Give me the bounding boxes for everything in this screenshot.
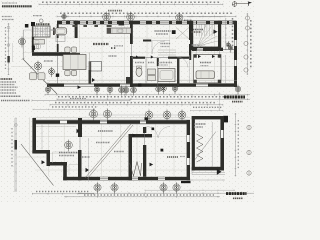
upper cabinet dashes	[72, 25, 77, 27]
2F bottom circle 2	[111, 182, 118, 193]
stair text	[189, 31, 201, 33]
PH top wall	[192, 116, 225, 119]
stair block dim ruler	[225, 18, 227, 50]
2F right wall	[187, 120, 190, 180]
PH balcony lines	[192, 172, 225, 174]
entry step marker	[78, 85, 82, 89]
left ruler 1F	[8, 23, 10, 75]
grid circle X5	[176, 12, 183, 23]
washroom divider	[157, 58, 159, 86]
backdoor arc	[177, 57, 188, 68]
vestibule cross	[176, 28, 189, 40]
2F room text1	[98, 130, 113, 132]
2F grid circle T4	[163, 110, 171, 122]
bottom grid circle B9	[172, 84, 178, 94]
2F small text r	[82, 156, 90, 158]
porch circle	[34, 61, 42, 73]
label 1F scale	[232, 101, 243, 103]
PH blob	[217, 169, 222, 175]
door sill black	[119, 22, 125, 25]
2F bedroom blobs	[152, 128, 155, 131]
black column blob B	[32, 46, 35, 51]
2F blob a	[42, 160, 46, 164]
PH stair diagonal	[195, 132, 216, 160]
SE dim rulers	[188, 55, 190, 83]
bath tub 1F	[158, 69, 175, 82]
2F upper-left dim	[33, 108, 95, 110]
window tag X5	[184, 19, 192, 21]
2F wall stairside	[129, 134, 153, 137]
2F void text	[59, 152, 78, 154]
bottom grid circle B10	[235, 85, 241, 95]
2F bedroom text	[167, 156, 178, 158]
2F numbers mid	[52, 106, 98, 108]
diagonal site boundary 1F	[23, 59, 57, 94]
PH left wall	[192, 116, 195, 171]
2F bottom circle 4	[173, 182, 180, 193]
2F eaves line	[33, 116, 190, 118]
porch circle 2	[49, 67, 55, 77]
bottom grid circle B5	[123, 86, 129, 96]
midroom divider	[145, 58, 147, 83]
entry door arc	[152, 41, 165, 54]
wc vent marks	[136, 55, 139, 58]
2F blob b	[77, 129, 81, 133]
2F step wall v1	[47, 150, 51, 166]
area table bold text	[2, 5, 32, 7]
dimension numbers row1	[42, 1, 220, 3]
powder text	[158, 62, 172, 64]
2F bottom dim r	[145, 189, 235, 191]
module grid bottom plan	[48, 124, 50, 176]
2F bottom circle 3	[160, 182, 167, 193]
bench mark flag	[237, 3, 249, 5]
PH bottom dim	[190, 179, 225, 181]
2F bottom-left dim	[32, 193, 94, 195]
bottom grid circle B4	[119, 86, 125, 96]
module grid top plan	[79, 24, 81, 84]
bottom wall 1F	[47, 79, 237, 81]
PH right ruler	[234, 113, 236, 176]
2F diagonal boundary	[21, 144, 54, 186]
window tag cluster X1	[33, 15, 42, 17]
bottom grid circle B3	[107, 85, 113, 95]
closet label	[52, 29, 59, 31]
2F step inner lines	[36, 126, 76, 128]
2F top dim numbers	[55, 102, 215, 104]
LDK label2	[114, 45, 123, 47]
left ruler aux line	[12, 43, 14, 62]
kitchen island	[89, 62, 102, 72]
washer box	[56, 36, 65, 42]
legend notes	[1, 78, 13, 80]
room divider y58	[131, 57, 190, 59]
kitchen corner piece	[126, 77, 130, 84]
SE room walls	[194, 55, 221, 83]
2F step wall h2	[47, 162, 68, 166]
2F step wall v2	[63, 162, 67, 180]
2F grid circle T1	[90, 109, 98, 121]
2F bottom circle 1	[94, 182, 101, 193]
2F center wall	[78, 118, 82, 137]
toilet room fixtures	[136, 68, 142, 77]
void label	[109, 55, 117, 57]
SE room text	[200, 62, 211, 64]
midroom text	[148, 62, 154, 64]
black column blob A	[25, 24, 29, 28]
wc fixture	[34, 45, 39, 49]
PH bottom wall	[192, 167, 224, 171]
PH right circles	[247, 125, 251, 175]
stair ruler circles	[226, 41, 230, 49]
2F bottom numbers	[84, 194, 214, 196]
void diagonal brace	[85, 124, 131, 178]
dining table	[63, 55, 86, 70]
2F second dim ticks	[190, 110, 223, 112]
PH inner wall	[211, 122, 213, 167]
bottom grid circle B6	[131, 86, 137, 96]
washroom text	[135, 62, 144, 64]
title small text	[2, 2, 17, 4]
closet grid	[33, 26, 50, 37]
2F door arc 2	[159, 127, 171, 139]
wall below stairblock	[192, 48, 223, 51]
bathtub	[56, 28, 67, 35]
hall wall piece	[143, 40, 151, 42]
2F bottom wall	[63, 177, 190, 181]
PH text	[194, 123, 206, 125]
midroom fixtures	[148, 69, 156, 75]
right ruler numbers	[250, 20, 252, 68]
stair block walls	[190, 21, 193, 50]
right ruler circles	[244, 16, 250, 72]
left small notes	[2, 16, 12, 18]
left annex wall	[31, 26, 33, 37]
grid circle X3	[103, 12, 111, 24]
LDK label	[93, 43, 109, 45]
vestibule blob	[172, 30, 176, 34]
bottom dim numbers 1F	[58, 96, 233, 98]
entrance right wall	[189, 24, 191, 40]
kitchen counter	[107, 28, 131, 34]
left wall 1F	[57, 24, 59, 84]
entrance hall text	[155, 30, 171, 32]
stair treads	[196, 25, 198, 37]
2F top wall	[33, 120, 190, 124]
2F grid circle T2	[104, 109, 112, 121]
label 2F scale	[233, 197, 243, 199]
north symbol	[232, 1, 237, 7]
grid circle X4	[127, 12, 135, 24]
2F interior circle	[65, 140, 73, 152]
PH right wall	[220, 116, 224, 171]
hall text2	[193, 29, 203, 31]
entry steps	[158, 49, 176, 51]
dimension numbers row2	[60, 12, 232, 14]
2F top dim numbers b	[193, 106, 222, 108]
SE room vents	[198, 55, 201, 58]
label 2F plan	[226, 192, 247, 195]
entrance wall aux	[219, 50, 221, 58]
sofa set	[30, 73, 37, 80]
bottom grid circle B7	[156, 85, 162, 95]
PH stair zigzag	[197, 134, 204, 162]
2F grid circle T5	[178, 110, 186, 122]
2F wall bedroom	[143, 127, 146, 133]
SE room bed	[196, 71, 214, 79]
entry text	[161, 43, 171, 45]
2F sill dark	[181, 181, 191, 183]
washbasin	[34, 40, 45, 45]
2F left wall	[32, 118, 36, 154]
2F left ruler	[14, 118, 16, 192]
closet door arc	[196, 45, 205, 54]
inter-plan ruler	[218, 92, 220, 111]
bottom grid circle B8	[161, 84, 167, 94]
kitchen wall	[75, 24, 78, 38]
2F door arc 1	[147, 127, 158, 138]
center wall X4	[130, 24, 133, 44]
2F bottom dim b	[64, 196, 220, 198]
page background	[0, 0, 254, 202]
top wall 1F	[57, 21, 237, 24]
wall hallway horizontal	[32, 52, 70, 56]
bottom dim line 1F b	[57, 98, 250, 100]
stair arrow blob	[214, 30, 218, 34]
grid dimension line	[57, 15, 236, 17]
2F grid leader line	[88, 114, 186, 116]
window tag X2	[62, 20, 78, 22]
2F bottom dim a	[78, 192, 254, 194]
bottom grid circle B2	[94, 85, 99, 94]
bottom grid circle B1	[45, 85, 51, 95]
2F top dim line	[50, 104, 223, 106]
bath right wall	[177, 58, 179, 88]
label 1F plan	[224, 96, 245, 99]
grid circle X2	[62, 13, 67, 22]
stair block dim line	[187, 16, 223, 18]
2F room text2	[96, 142, 110, 144]
overall dimension line top	[39, 3, 223, 5]
right dim ruler 1F	[246, 13, 248, 75]
2F step wall h1	[32, 150, 50, 154]
2F wall blob	[145, 117, 149, 121]
column circle A	[19, 37, 26, 48]
2F grid circle T3	[145, 110, 153, 122]
bottom dim line 1F a	[45, 94, 250, 96]
2F balcony dim	[41, 125, 43, 150]
2F blob c	[86, 168, 90, 172]
right wall 1F	[234, 21, 237, 87]
column mid	[89, 70, 92, 84]
overall dim 2F top	[32, 99, 130, 101]
porch text	[44, 60, 53, 62]
2F interior dim	[88, 138, 90, 182]
stair ruler numbers	[232, 18, 234, 46]
porch blob	[56, 74, 59, 77]
overall number	[108, 10, 122, 12]
